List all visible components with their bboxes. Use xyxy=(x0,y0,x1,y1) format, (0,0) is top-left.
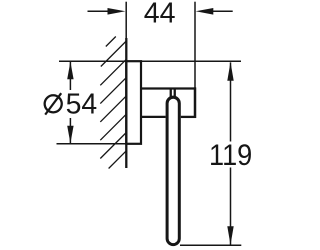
pivot pin left edge xyxy=(170,89,172,97)
dimension line dia54 lower segment xyxy=(69,118,71,143)
dimension text dia symbol xyxy=(45,93,62,114)
wall hatch line 3 xyxy=(100,59,126,85)
wall hatch line 2 xyxy=(101,41,127,67)
arrowhead 119 top (pointing up) xyxy=(227,62,233,81)
dimension line 119 lower segment xyxy=(230,168,232,245)
wall hatch line 8 (bottom clipped) xyxy=(109,151,127,169)
extension line top (flange top edge extended, shared by dia54 and 119) xyxy=(59,60,241,62)
wall hatch line 5 xyxy=(100,96,126,122)
flange (wall plate, side view rectangle dia54) xyxy=(126,61,141,144)
arrowhead 44 left (pointing right) xyxy=(108,8,126,15)
pivot pin right edge xyxy=(174,89,176,97)
bracket housing front face xyxy=(194,87,197,118)
svg-text:119: 119 xyxy=(209,139,252,172)
dimension line 44 left tail xyxy=(88,10,111,12)
arrowhead 44 right (pointing left) xyxy=(196,8,214,15)
arrowhead dia54 bottom (pointing down) xyxy=(67,126,73,144)
dimension line 44 right tail xyxy=(211,10,233,12)
holder arm loop (side view, rounded elongated loop) xyxy=(166,96,181,247)
wall hatch line 7 xyxy=(100,133,126,159)
wall hatch line 4 xyxy=(100,78,126,104)
arrowhead 119 bottom (pointing down) xyxy=(227,226,233,245)
arrowhead dia54 top (pointing up) xyxy=(67,62,73,80)
svg-text:54: 54 xyxy=(66,88,98,120)
bracket housing bottom edge right segment xyxy=(181,116,196,118)
bracket housing top edge xyxy=(141,87,197,89)
dimension line dia54 upper segment xyxy=(69,62,71,90)
bracket housing bottom edge left segment xyxy=(141,116,166,118)
wall surface line (thick object line) xyxy=(125,38,127,168)
wall hatch line 1 (short top) xyxy=(106,37,116,47)
extension line bottom of dia54 (flange bottom edge extended) xyxy=(57,143,142,145)
wall hatch line 6 xyxy=(100,114,126,140)
extension line left of 44 dimension (wall surface, upper thin part) xyxy=(125,2,127,38)
extension line right of 44 dimension xyxy=(194,2,196,88)
svg-text:44: 44 xyxy=(144,0,176,29)
dimension text 119 (condensed) xyxy=(209,139,252,172)
dimension line 119 upper segment xyxy=(230,62,232,141)
extension line bottom of 119 dimension xyxy=(180,244,241,246)
